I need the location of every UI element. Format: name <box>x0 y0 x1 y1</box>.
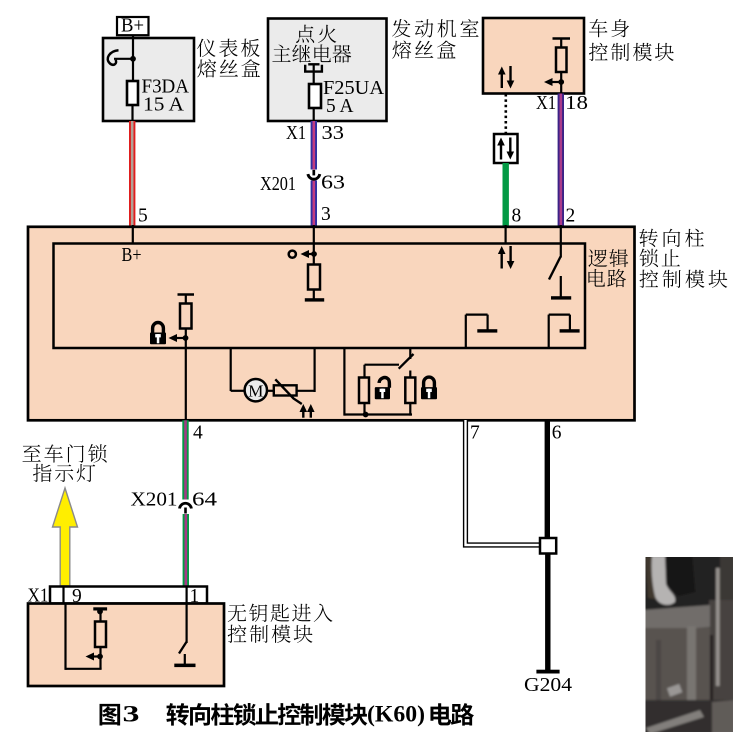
connector label X1 18 <box>536 92 588 114</box>
svg-text:G204: G204 <box>524 674 572 696</box>
pin 5 label <box>138 206 148 227</box>
lock sensor resistor A (unlocked) <box>359 365 369 415</box>
solenoid junction dot <box>363 412 369 418</box>
body control module box <box>483 18 584 94</box>
strip pin 9 label <box>72 586 82 607</box>
pin 3 label <box>321 204 331 225</box>
svg-text:64: 64 <box>192 489 217 511</box>
label 车身控制模块 <box>589 19 674 61</box>
svg-text:63: 63 <box>321 172 345 194</box>
wire B+ tag into fuse box <box>132 35 134 83</box>
label 仪表板熔丝盒 <box>197 39 260 78</box>
wire fuse F3DA to pin 5 (red) <box>129 105 135 226</box>
svg-text:33: 33 <box>322 122 345 144</box>
svg-text:B+: B+ <box>121 15 144 37</box>
svg-text:B+: B+ <box>122 244 142 266</box>
label 发动机室熔丝盒 <box>392 19 479 59</box>
engine compartment fuse box (relay box) <box>268 19 387 122</box>
steering column lock control module box (K60) <box>28 227 635 420</box>
svg-text:18: 18 <box>565 92 588 114</box>
svg-text:4: 4 <box>193 423 203 444</box>
driver contact symbol right (pin 6) <box>549 315 580 348</box>
wire logic box down left (solenoid circuit) <box>344 348 412 416</box>
wire lock node to pin 4 <box>185 338 187 419</box>
svg-text:(K60): (K60) <box>367 702 425 727</box>
node B+ label inside logic box <box>122 244 142 266</box>
keyless pin 1 switch <box>174 604 195 668</box>
double-line wire pin 7 to splice <box>466 420 541 545</box>
svg-text:M: M <box>248 382 263 401</box>
lock status node with arrow and closed lock icon <box>150 323 188 345</box>
wire X201-64 to keyless module pin 1 (green/violet) <box>183 514 189 587</box>
wire pin 4 to X201-64 (green/violet) <box>182 420 188 499</box>
keyless indicator node with arrow <box>86 653 103 661</box>
svg-text:X1: X1 <box>286 122 306 144</box>
svg-text:2: 2 <box>566 206 576 227</box>
switch hook contact in fuse box <box>108 50 136 65</box>
label 逻辑电路 <box>588 249 628 287</box>
closed padlock icon B <box>421 377 437 399</box>
svg-text:6: 6 <box>552 423 562 444</box>
wire X1-33 to X201-63 (blue/magenta) <box>311 121 317 170</box>
fuse F25UA 5A <box>309 77 385 117</box>
splice junction <box>540 538 556 554</box>
serial data link boxed arrows symbol <box>494 134 518 163</box>
driver contact symbol left (pin 7) <box>466 315 498 348</box>
double up arrows (motor drive) <box>300 404 315 418</box>
svg-text:X201: X201 <box>131 489 178 511</box>
strip pin 1 label <box>190 586 200 607</box>
node B+ battery feed tag <box>117 15 149 37</box>
wire fuse F25UA to box edge <box>313 108 315 122</box>
svg-text:X1: X1 <box>536 92 556 114</box>
keyless pin 9 internal wire <box>66 604 102 670</box>
wire motor to thermistor <box>267 390 275 392</box>
lock sensor resistor B (locked) <box>405 378 415 416</box>
inline connector X201 64 <box>131 489 218 514</box>
wire X201-63 to pin 3 (blue/magenta) <box>311 181 317 226</box>
internal resistor (pin 3 pull-down) <box>305 255 324 302</box>
lock position switch <box>365 348 414 378</box>
keyless module connector strip X1 <box>50 587 207 604</box>
pin 8 label <box>512 206 522 227</box>
pin 6 label <box>552 423 562 444</box>
label 至车门锁指示灯 <box>23 444 107 482</box>
label 无钥匙进入控制模块 <box>228 604 333 643</box>
label 点火主继电器 <box>272 25 351 63</box>
ground G204 <box>524 670 572 696</box>
label 转向柱锁止控制模块 <box>639 229 727 288</box>
wire thermistor to logic box right <box>297 348 315 392</box>
relay K coil contact symbol <box>305 64 322 85</box>
thick ground wire pin 6 upper <box>545 420 550 539</box>
inline connector X201 63 <box>260 170 345 195</box>
open padlock icon <box>375 378 390 400</box>
bidirectional arrows symbol (pin 8 internal) <box>498 225 515 269</box>
connector label X1 33 <box>286 122 344 144</box>
pin 4 label <box>193 423 203 444</box>
motor M <box>245 379 267 401</box>
svg-text:X201: X201 <box>260 173 296 195</box>
wire pin 5 stub into module <box>132 225 134 245</box>
BCM bidirectional arrows symbol <box>498 66 514 89</box>
photo inset of steering column lock module <box>643 554 733 732</box>
pin 3 internal wire with test point <box>289 225 317 258</box>
fuse F3DA 15A <box>127 76 190 116</box>
svg-text:3: 3 <box>321 204 331 225</box>
BCM output node with arrow <box>544 78 564 86</box>
pin 2 label <box>566 206 576 227</box>
keyless resistor with supply bar <box>93 607 107 647</box>
wire data link to pin 8 (green) <box>503 163 509 226</box>
svg-text:15 A: 15 A <box>143 94 185 116</box>
svg-text:8: 8 <box>512 206 522 227</box>
keyless entry control module box <box>28 604 224 687</box>
wire X1-18 to pin 2 (violet) <box>558 82 564 226</box>
svg-text:5: 5 <box>138 206 148 227</box>
yellow arrow to door lock indicator <box>53 488 78 586</box>
internal resistor with supply bar (lock status) <box>178 295 195 340</box>
caption 图3 转向柱锁止控制模块(K60)电路 <box>100 702 474 727</box>
pin 2 internal switch <box>549 225 571 300</box>
thick ground wire to G204 <box>545 554 550 671</box>
thermistor (variable resistor) <box>274 379 302 404</box>
pin 7 label <box>470 423 480 444</box>
svg-text:5 A: 5 A <box>326 95 354 117</box>
BCM internal resistor with supply bar <box>553 39 571 83</box>
instrument panel fuse box <box>103 38 194 121</box>
dotted serial data wire from BCM <box>504 94 507 133</box>
logic circuit inner box <box>54 244 586 349</box>
svg-text:7: 7 <box>470 423 480 444</box>
connector strip label X1 <box>28 585 49 607</box>
wire logic box to motor loop left <box>231 348 246 391</box>
svg-text:3: 3 <box>123 702 140 727</box>
